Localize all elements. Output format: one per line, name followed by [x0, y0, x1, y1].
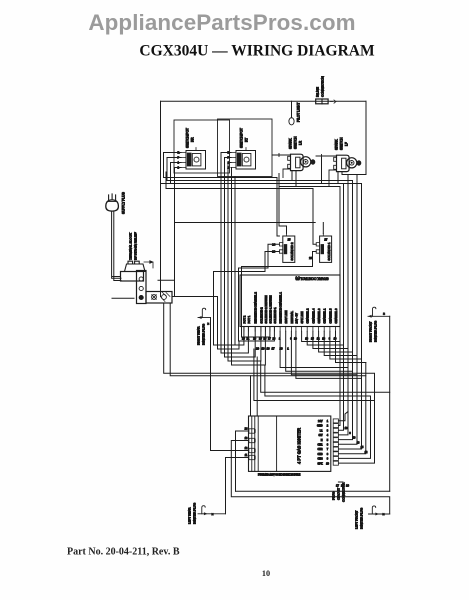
svg-text:×: ×: [212, 512, 214, 516]
svg-text:7: 7: [327, 448, 329, 451]
svg-text:REIGNITION CHANNEL 2: REIGNITION CHANNEL 2: [254, 292, 258, 324]
svg-text:LEFT REAR: LEFT REAR: [188, 507, 192, 524]
svg-text:CHANNEL 3: CHANNEL 3: [317, 308, 321, 323]
svg-text:CHANNEL 2: CHANNEL 2: [306, 308, 310, 323]
wire: spark switch LF bottom: [338, 172, 342, 184]
svg-text:SOLENOID 1: SOLENOID 1: [327, 242, 331, 260]
svg-text:INLINE: INLINE: [316, 87, 320, 97]
wire: right bundle 3: [338, 175, 348, 435]
wire: bundle feed to igniter top: [256, 357, 258, 416]
svg-text:CH1: CH1: [317, 444, 323, 447]
svg-text:16: 16: [357, 441, 360, 444]
wire numbers along weave: [256, 346, 350, 487]
wire: bundle feed G2c: [265, 365, 371, 458]
wire: top bus y174.5: [342, 174, 366, 176]
svg-text:15: 15: [361, 446, 364, 449]
svg-text:×: ×: [383, 513, 385, 517]
svg-text:Part No. 20-04-211, Rev. B: Part No. 20-04-211, Rev. B: [67, 547, 180, 558]
right rear igniter plug: [197, 308, 211, 345]
gas igniter right terminal labels: [317, 420, 330, 465]
svg-text:SOLENOID 1 RETURN: SOLENOID 1 RETURN: [268, 295, 272, 323]
svg-text:CHANNEL 5: CHANNEL 5: [328, 308, 332, 323]
wire: long bus y183.5: [161, 183, 362, 185]
svg-text:CHANNEL 1: CHANNEL 1: [323, 308, 327, 323]
wire: pin CH cascade 4: [319, 331, 353, 352]
svg-text:RT: RT: [245, 138, 249, 142]
svg-text:11: 11: [245, 454, 248, 457]
wire: solenoid 2 pin 23: [214, 252, 280, 346]
terminal block side lug: [146, 292, 172, 304]
wire: pin drop G1b: [286, 331, 353, 371]
wire: bottom bus y491.3: [236, 490, 390, 492]
terminal block chassis stub: [112, 277, 134, 299]
wire: long bus y180.5: [167, 180, 353, 182]
solenoid 2 pins: [279, 233, 286, 253]
terminal block strain-relief arrow: [144, 261, 153, 268]
supply plug P1: [106, 200, 119, 211]
svg-text:SPK LINE: SPK LINE: [300, 311, 304, 323]
svg-text:SOLENOID 2: SOLENOID 2: [290, 242, 294, 260]
wire: switch/pot RR pin R to bus: [164, 153, 182, 178]
wire: right bundle 7: [338, 363, 365, 454]
svg-text:SPK: SPK: [317, 462, 322, 465]
wire: solenoid 2 top pin: [279, 174, 287, 234]
gas igniter module box: [249, 416, 331, 471]
wire: terminal bundle to pot pin: [218, 297, 240, 350]
svg-text:SWITCH/POT: SWITCH/POT: [186, 128, 190, 148]
svg-text:SOLENOID 2: SOLENOID 2: [259, 307, 263, 324]
svg-text:24V: 24V: [318, 420, 323, 423]
svg-text:5: 5: [327, 439, 329, 442]
svg-text:9: 9: [327, 458, 329, 461]
svg-text:18: 18: [345, 427, 348, 430]
supply cord wires: [112, 212, 121, 281]
svg-text:1: 1: [327, 420, 329, 423]
wire: RF plug drop: [389, 316, 391, 491]
svg-text:12: 12: [365, 451, 368, 454]
svg-text:CHANNEL 6: CHANNEL 6: [334, 308, 338, 323]
wire: right bundle 6: [338, 184, 361, 450]
wire: bus y186.5: [280, 186, 341, 188]
wire numbers along igniter exits: [345, 427, 368, 454]
svg-text:25: 25: [288, 237, 291, 241]
svg-text:SUPPLY PLUG: SUPPLY PLUG: [122, 192, 126, 214]
svg-text:CONNECTION: CONNECTION: [321, 76, 325, 97]
svg-text:4: 4: [327, 434, 329, 437]
pilot light lamp: [289, 118, 294, 125]
wire: pin CH cascade 3: [313, 331, 348, 348]
svg-text:24: 24: [245, 427, 248, 430]
spark switch LR body: [291, 154, 304, 170]
spark control module box: [240, 275, 340, 327]
wire: pin CH cascade 2: [307, 331, 343, 345]
svg-text:SW: SW: [318, 434, 323, 437]
wire: switch/pot RR pin P to long bus: [167, 158, 181, 181]
svg-text:10: 10: [326, 462, 329, 465]
wire: chassis edge into bus: [348, 174, 366, 176]
gas igniter left pins: [243, 431, 249, 458]
wire: RT pin R down bundle: [221, 153, 248, 354]
svg-text:N: N: [321, 439, 323, 442]
spark switch LR pin wire: [272, 154, 291, 178]
svg-text:IGNITER PLUG: IGNITER PLUG: [202, 323, 206, 345]
gas igniter plug connector strip: [333, 419, 338, 465]
switch/pot RT box: [218, 119, 273, 177]
svg-text:17: 17: [268, 337, 271, 340]
wire: terminal bus lower 1: [164, 304, 375, 464]
wire: solenoid feeder y222.5: [175, 189, 316, 223]
svg-text:CH2: CH2: [317, 448, 323, 451]
pilot light wire: [291, 101, 293, 117]
svg-text:SOLENOID 1: SOLENOID 1: [273, 307, 277, 324]
wire: RT pin 1 down bundle: [228, 163, 261, 362]
svg-text:POT 2: POT 2: [242, 315, 246, 323]
wire: igniter pin 11 to LR plug: [226, 458, 244, 514]
svg-text:PILOT LIGHT: PILOT LIGHT: [297, 103, 301, 122]
svg-text:1: 1: [287, 346, 289, 350]
wire: terminal bus lower 2: [170, 304, 366, 376]
wire: solenoid 1 top pin: [313, 223, 316, 245]
svg-text:LF: LF: [345, 142, 349, 146]
svg-text:12: 12: [245, 447, 248, 450]
wire: RT pin 2 down bundle: [231, 168, 265, 366]
wire: terminal block to bundle L: [172, 296, 218, 298]
wire: pin CH cascade 1: [302, 331, 340, 341]
svg-text:CH3: CH3: [317, 453, 323, 456]
svg-text:17: 17: [271, 346, 275, 350]
wire: bus y188.5: [166, 172, 313, 189]
svg-text:10: 10: [353, 437, 356, 440]
wire: igniter pin 12 to RR plug: [211, 318, 244, 451]
svg-text:9: 9: [349, 432, 351, 435]
wire: right bundle 5: [338, 175, 357, 445]
svg-text:RIGHT FRONT: RIGHT FRONT: [369, 321, 373, 342]
gas igniter internal dividers: [252, 416, 277, 471]
switch/pot RR box: [174, 120, 230, 173]
solenoid 1 body: [320, 236, 332, 262]
svg-text:REIGNITION CHANNEL 1: REIGNITION CHANNEL 1: [279, 292, 283, 324]
solenoid 1 pins: [316, 233, 323, 253]
terminal block cap: [125, 261, 146, 271]
spark control pin numbers: [242, 337, 337, 340]
svg-text:SPARK: SPARK: [335, 139, 339, 150]
wire: pin drop G1a: [280, 331, 348, 367]
wire: right bundle 1: [338, 187, 340, 426]
wire: connector exit numbers area: [338, 481, 343, 483]
wire: connector exit 1: [338, 412, 348, 421]
svg-text:CH4: CH4: [317, 458, 323, 461]
svg-text:SWITCH/POT: SWITCH/POT: [240, 128, 244, 148]
svg-text:10: 10: [262, 569, 270, 578]
svg-text:18: 18: [266, 346, 270, 350]
inline connector body: [316, 99, 328, 104]
svg-text:20: 20: [256, 346, 260, 350]
svg-text:SWITCH: SWITCH: [294, 136, 298, 149]
svg-text:PLUG: PLUG: [332, 491, 336, 500]
spark switch LF pin wire: [316, 155, 337, 187]
spark control pin stubs: [244, 327, 336, 332]
svg-text:3: 3: [327, 429, 329, 432]
wire: right bundle 2: [338, 184, 343, 431]
wire: pin CH cascade 5: [324, 331, 357, 355]
terminal block terminal column: [137, 271, 147, 304]
chassis box left edge: [160, 101, 162, 296]
svg-text:SOLENOID 2 RETURN: SOLENOID 2 RETURN: [264, 295, 268, 323]
svg-text:W/ STRAIN RELIEF: W/ STRAIN RELIEF: [134, 231, 138, 260]
svg-text:SPARK: SPARK: [289, 138, 293, 149]
solenoid 2 body: [283, 236, 295, 262]
right front igniter plug: [368, 307, 390, 342]
left front igniter plug: [355, 506, 390, 529]
wire: solenoid 1 pin 26: [242, 252, 317, 338]
svg-text:IGNITER PLUG: IGNITER PLUG: [193, 502, 197, 524]
svg-text:RIGHT REAR: RIGHT REAR: [197, 326, 201, 345]
svg-text:IGNITER PLUG: IGNITER PLUG: [374, 320, 378, 342]
wire: right bundle 4: [338, 181, 352, 440]
svg-text:6: 6: [327, 444, 329, 447]
svg-text:CIRCUIT: CIRCUIT: [337, 488, 341, 500]
svg-text:CGX304U — WIRING DIAGRAM: CGX304U — WIRING DIAGRAM: [139, 43, 375, 60]
svg-text:120V LINE: 120V LINE: [284, 310, 288, 323]
wire: switch/pot RR pin 1 to bus: [171, 163, 182, 184]
switch/pot RT pins: [231, 148, 246, 168]
svg-text:L1: L1: [320, 429, 323, 432]
svg-text:SPARK CONTROL(S): SPARK CONTROL(S): [295, 277, 328, 281]
wire: bundle feed G2d: [254, 349, 375, 401]
wire: bundle feed to RF drop: [261, 361, 390, 392]
svg-text:17: 17: [336, 484, 339, 488]
svg-text:2: 2: [327, 425, 329, 428]
wire: pin CH cascade 6: [330, 331, 362, 359]
switch/pot RR body: [186, 151, 206, 170]
terminal block body: [121, 272, 144, 282]
svg-text:LEFT FRONT: LEFT FRONT: [355, 510, 359, 529]
wire: switch/pot RR pin 2 feeder down left: [175, 168, 182, 297]
switch/pot RT body: [236, 151, 256, 170]
wire: bus under boxes y177.5: [164, 178, 280, 237]
svg-text:POT 1: POT 1: [247, 315, 251, 323]
svg-text:×: ×: [207, 322, 209, 326]
wire: bus feed igniter column: [250, 376, 252, 416]
left rear igniter plug: [188, 502, 226, 524]
svg-text:FUSE 15A 120V 60 HZ SPARK MOD: FUSE 15A 120V 60 HZ SPARK MODULE: [258, 474, 301, 477]
svg-text:4 PT GAS IGNITER: 4 PT GAS IGNITER: [297, 428, 302, 464]
svg-text:24V - 5V: 24V - 5V: [294, 313, 298, 324]
svg-text:26: 26: [279, 346, 283, 350]
wire: pin CH cascade 7: [336, 331, 366, 362]
svg-text:SWITCH: SWITCH: [340, 137, 344, 150]
svg-text:27: 27: [324, 237, 327, 241]
wire: igniter pin 10 to LF: [231, 441, 389, 515]
svg-text:TERMINAL BLOCK: TERMINAL BLOCK: [129, 232, 133, 260]
svg-text:LR: LR: [299, 140, 303, 145]
wire: solenoid 2 pin 24: [239, 244, 280, 341]
wire: spark switch LF pin down: [321, 158, 323, 184]
svg-text:×: ×: [383, 312, 385, 316]
wire: RT pin P down bundle: [225, 158, 256, 358]
wire: pin drop G1d: [296, 331, 362, 378]
wire: spark switch LR bottom: [292, 171, 296, 187]
wire: pin drop G1c: [291, 331, 357, 375]
spark control pin labels: [242, 292, 338, 324]
wire: terminal block to feeder: [158, 279, 175, 281]
svg-text:8: 8: [327, 453, 329, 456]
svg-text:NEUTRAL: NEUTRAL: [290, 310, 294, 323]
svg-text:CHANNEL 4: CHANNEL 4: [311, 308, 315, 323]
svg-text:AppliancePartsPros.com: AppliancePartsPros.com: [88, 10, 355, 35]
svg-text:16: 16: [346, 484, 349, 488]
svg-text:RR: RR: [191, 137, 195, 142]
chassis box top edge: [161, 100, 367, 102]
svg-text:IGNITER PLUG: IGNITER PLUG: [360, 507, 364, 529]
wire: RT box bottom down bundle: [235, 177, 244, 346]
wire: solenoid 1 coil top: [322, 223, 324, 234]
spark switch LF body: [337, 155, 350, 171]
chassis box right edge: [365, 101, 367, 174]
wire: igniter pin 24 to bottom bus: [236, 431, 244, 491]
svg-text:10: 10: [245, 437, 248, 440]
switch/pot RR pins: [181, 148, 196, 168]
svg-text:19: 19: [261, 346, 265, 350]
svg-text:GND: GND: [317, 425, 323, 428]
